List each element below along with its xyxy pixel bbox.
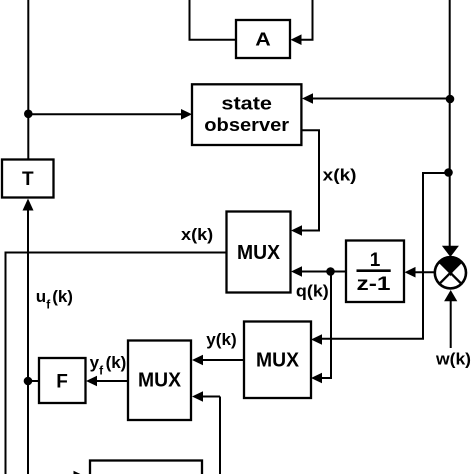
svg-text:F: F: [56, 372, 68, 393]
svg-text:MUX: MUX: [237, 242, 281, 264]
wire: arrow into bottom block (mostly below frame): [74, 471, 85, 474]
svg-text:MUX: MUX: [256, 350, 300, 372]
node: junction dot on right vertical (observer feed): [446, 95, 455, 104]
wire: top-left feedback vertical into A: [189, 0, 237, 40]
wire: q(k) dot down to MUX2 lower input: [311, 270, 332, 383]
wire: bottom feedback into MUX3 lower input: [192, 391, 220, 474]
label w(k): [435, 350, 471, 369]
svg-text:observer: observer: [204, 115, 289, 135]
wire: u_f vertical up into T: [23, 199, 34, 382]
block state observer: [192, 84, 301, 145]
node: junction dot on right vertical (MUX2 feed): [444, 168, 453, 177]
svg-text:MUX: MUX: [138, 370, 182, 392]
wire: w(k) input arrow into summing junction bottom: [444, 290, 457, 348]
wire: top-right vertical into A with arrow: [291, 0, 314, 45]
block MUX1: [227, 212, 291, 293]
label x(k) on observer output: [323, 165, 357, 184]
wire: left main vertical (u line above T): [27, 0, 29, 160]
svg-text:1: 1: [370, 250, 381, 271]
node: junction dot q(k): [326, 267, 335, 276]
svg-text:w(k): w(k): [435, 350, 471, 369]
svg-text:x(k): x(k): [181, 225, 213, 244]
wire: junction to state observer input arrow: [28, 109, 192, 120]
label y_f(k): [90, 353, 127, 378]
wire: right vertical from top with junction feeding observer: [302, 0, 450, 246]
svg-text:T: T: [22, 169, 34, 190]
svg-text:uf(k): uf(k): [36, 287, 73, 312]
wire: q(k) dot to integrator box: [331, 271, 347, 273]
node: junction dot u_f: [24, 377, 33, 386]
node: junction on left vertical: [24, 110, 33, 119]
label x(k) left of MUX1: [181, 225, 213, 244]
wire: summing junction output into integrator: [405, 267, 435, 278]
wire: MUX2 output y(k) into MUX3: [192, 355, 244, 366]
wire: F output to left vertical: [28, 380, 39, 382]
svg-text:y(k): y(k): [206, 330, 236, 349]
wire: q(k) dot into MUX1 lower input: [291, 266, 331, 277]
block 1/z-1 integrator: [346, 241, 404, 303]
label q(k): [296, 282, 329, 301]
block MUX2: [244, 322, 311, 399]
block bottom (cut off): [90, 461, 202, 474]
block A: [236, 20, 290, 58]
wire: u_f vertical down to bottom: [27, 381, 29, 474]
block MUX3: [128, 341, 191, 421]
block F: [39, 358, 86, 403]
svg-text:z-1: z-1: [357, 274, 392, 295]
wire: dot2 branch to MUX2 upper input: [311, 172, 449, 345]
label y(k): [206, 330, 236, 349]
wire: arrow from right vertical into summing junction top: [442, 246, 459, 257]
wire: MUX1 left line x(k) to bottom-left: [6, 253, 227, 474]
label u_f(k): [36, 287, 73, 312]
block T: [2, 160, 54, 198]
wire: MUX3 output y_f(k) into F: [86, 376, 128, 387]
svg-text:yf(k): yf(k): [90, 353, 127, 378]
svg-text:A: A: [255, 30, 271, 50]
svg-text:q(k): q(k): [296, 282, 329, 301]
svg-text:x(k): x(k): [323, 165, 357, 184]
svg-text:state: state: [221, 94, 272, 114]
summing junction (circle with X, filled top sector): [435, 257, 466, 288]
wire: observer output x(k) down into MUX1: [291, 130, 319, 236]
